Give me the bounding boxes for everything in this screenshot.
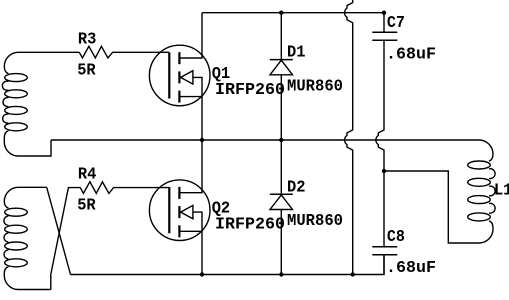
wire crossing X: diagonal from coil top to bottom rail <box>47 187 71 274</box>
inductor T1b winding (bottom-left coil) <box>4 187 51 289</box>
wire from L1 bottom to C7/C8 midpoint <box>384 171 479 243</box>
junction dot bottom rail at D2 <box>279 272 283 276</box>
wire crossing X: diagonal from coil bottom up to R4 <box>51 188 81 290</box>
top rail <box>202 12 384 14</box>
inductor winding (top-left coil) <box>2 52 27 156</box>
inductor L1 winding outline (right coil) <box>479 140 495 243</box>
junction dot middle rail at Q1/Q2 <box>200 138 204 142</box>
capacitor branch wire with hop at middle rail <box>376 13 384 275</box>
bottom rail with corner up to C8 <box>71 255 385 275</box>
svg-text:L1: L1 <box>494 181 509 200</box>
junction dot top rail at D1 <box>279 11 283 15</box>
svg-text:MUR860: MUR860 <box>287 78 343 97</box>
svg-text:R3: R3 <box>78 30 97 49</box>
wire from coil bottom to middle rail (step) <box>19 140 52 156</box>
inductor L1 (right coil) <box>468 161 491 221</box>
svg-text:.68uF: .68uF <box>386 259 436 278</box>
resistor R3 zigzag with lead wire to Q1 gate <box>79 46 169 58</box>
middle rail <box>51 139 479 141</box>
mosfet Q1 <box>149 13 210 140</box>
svg-text:IRFP260: IRFP260 <box>215 81 285 100</box>
svg-text:D1: D1 <box>287 44 306 63</box>
capacitor C8 <box>372 247 397 255</box>
junction dot bottom rail at feed wire <box>351 272 355 276</box>
svg-text:5R: 5R <box>77 196 96 215</box>
svg-text:C7: C7 <box>387 14 405 33</box>
wire from R3 to top-left coil <box>19 51 80 53</box>
junction dot C7/C8 midpoint to L1 <box>382 169 386 173</box>
junction dot bottom rail at Q2 source <box>200 272 204 276</box>
resistor R4 zigzag and wire to Q2 gate <box>80 182 169 194</box>
svg-text:.68uF: .68uF <box>386 46 436 65</box>
diode D1 <box>270 13 293 140</box>
svg-text:MUR860: MUR860 <box>287 212 343 231</box>
junction dot middle rail at D1/D2 <box>279 138 283 142</box>
svg-text:D2: D2 <box>287 178 306 197</box>
svg-text:IRFP260: IRFP260 <box>215 216 285 235</box>
diode D2 <box>270 140 293 275</box>
vertical feed wire with hops at top and middle rails <box>345 0 353 275</box>
svg-text:R4: R4 <box>78 165 97 184</box>
capacitor C7 <box>372 32 397 40</box>
junction dot top rail at C7 <box>382 11 386 15</box>
mosfet Q2 <box>149 140 210 275</box>
svg-text:C8: C8 <box>387 228 405 247</box>
svg-text:5R: 5R <box>77 61 96 80</box>
